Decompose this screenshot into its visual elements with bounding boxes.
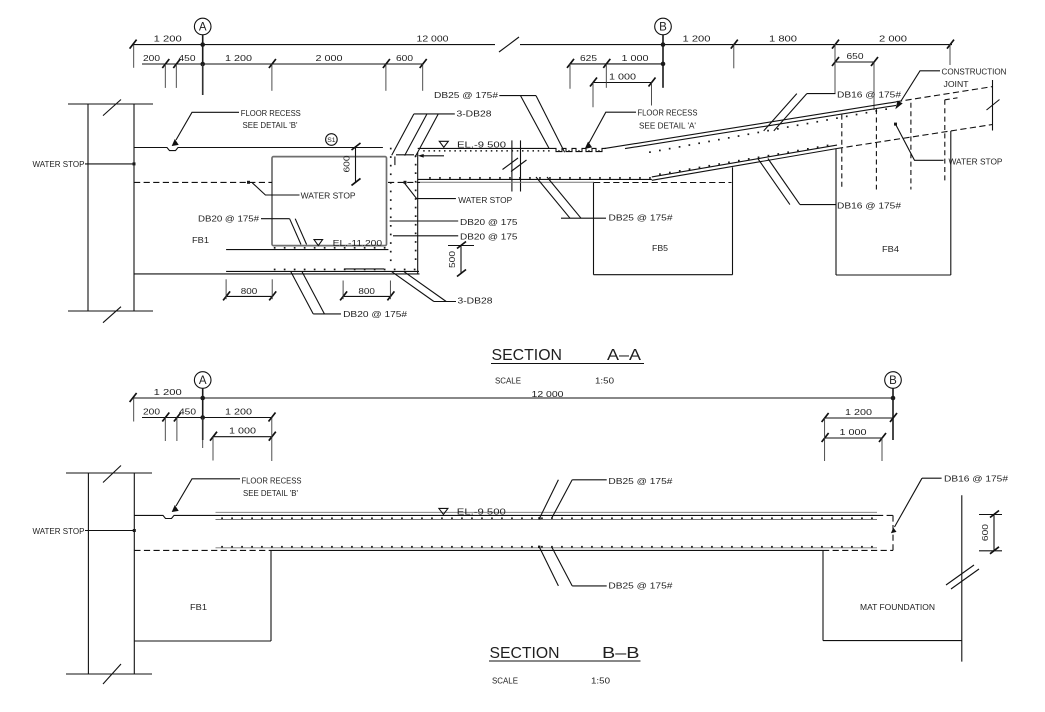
svg-text:JOINT: JOINT xyxy=(944,79,970,89)
dimension text 1 200 (B-B row1) xyxy=(154,387,182,397)
dimension text 1 200 (row1 left) xyxy=(154,34,182,44)
slab end dashed (section B-B) xyxy=(877,515,893,550)
floor recess label (section A-A mid) xyxy=(586,108,698,149)
dimension text 1 000 (B-B row3) xyxy=(229,426,256,436)
water stop label left (section A-A) xyxy=(33,159,136,169)
svg-text:WATER STOP: WATER STOP xyxy=(301,190,356,200)
rebar dot column inner (step) xyxy=(390,148,392,261)
svg-text:FLOOR RECESS: FLOOR RECESS xyxy=(241,108,301,118)
svg-text:MAT FOUNDATION: MAT FOUNDATION xyxy=(860,602,935,612)
svg-text:A: A xyxy=(199,375,207,387)
mat foundation outline (section B-B) xyxy=(823,495,979,661)
slab top line with recess notch (section A-A left) xyxy=(134,148,383,151)
svg-text:1 200: 1 200 xyxy=(154,387,182,397)
svg-text:650: 650 xyxy=(847,51,864,61)
svg-text:WATER STOP: WATER STOP xyxy=(33,526,85,536)
label 3-DB28 (bottom) xyxy=(392,272,493,306)
svg-text:SECTION: SECTION xyxy=(492,347,563,364)
arrow pointing at step bars xyxy=(418,154,444,158)
water stop label in pit (section A-A) xyxy=(252,183,356,201)
svg-text:200: 200 xyxy=(143,53,160,63)
svg-text:SEE DETAIL 'B': SEE DETAIL 'B' xyxy=(243,488,298,498)
ramp bottom rebar dots xyxy=(659,145,828,175)
label DB25 @ 175# (B-B top bars) xyxy=(538,476,672,519)
svg-text:DB20 @ 175: DB20 @ 175 xyxy=(460,231,518,241)
svg-text:3-DB28: 3-DB28 xyxy=(457,109,492,119)
label DB20 @ 175# (pit bottom bars) xyxy=(198,213,307,244)
dimension text 2 000 (row1) xyxy=(879,34,907,44)
pit bottom rebar line (section A-A) xyxy=(226,247,388,250)
svg-text:B: B xyxy=(889,375,897,387)
slab bottom edge dashed over FB1 (section B-B) xyxy=(134,549,272,551)
ramp bottom edge line xyxy=(652,149,837,181)
dimension text 1 000 (B-B right) xyxy=(840,427,867,437)
grid line B stem (section B-B) xyxy=(892,388,894,440)
top rebar dots (section A-A right slab) xyxy=(423,150,600,152)
dimension text 600 (row2) xyxy=(396,53,413,63)
bottom rebar line (section A-A left) xyxy=(226,269,419,272)
label DB25 @ 175# (top slab bars) xyxy=(434,90,565,153)
bottom rebar line (section A-A right) xyxy=(418,177,652,179)
svg-text:S1: S1 xyxy=(327,137,336,144)
svg-text:B–B: B–B xyxy=(602,645,640,662)
dimension text 600 rotated (pit) xyxy=(342,155,352,172)
dimension 500 vertical (step) xyxy=(448,242,474,277)
svg-text:DB20 @ 175#: DB20 @ 175# xyxy=(343,309,407,319)
dimension text 450 (B-B) xyxy=(179,407,196,417)
wall (section B-B) xyxy=(66,466,152,685)
svg-text:DB20 @ 175#: DB20 @ 175# xyxy=(198,213,259,223)
dimension text 1 200 (row2) xyxy=(225,53,252,63)
dimension text 625 (row2 right) xyxy=(580,53,597,63)
dimension text 800 left xyxy=(241,286,258,296)
svg-text:A: A xyxy=(199,22,207,34)
label DB20 @ 175# (bottom bars) xyxy=(291,272,408,320)
svg-text:1 200: 1 200 xyxy=(225,53,252,63)
svg-text:SCALE: SCALE xyxy=(495,376,521,386)
label DB25 @ 175# (FB5 bottom bars) xyxy=(536,177,673,222)
svg-text:1:50: 1:50 xyxy=(595,376,614,386)
svg-text:SECTION: SECTION xyxy=(490,645,560,662)
dimension text 650 xyxy=(847,51,864,61)
svg-text:DB25 @ 175#: DB25 @ 175# xyxy=(434,90,498,100)
svg-text:1 000: 1 000 xyxy=(622,53,649,63)
svg-text:3-DB28: 3-DB28 xyxy=(458,295,493,305)
dimension line row2 left (section A-A) xyxy=(142,59,427,68)
slab bottom edge (section A-A left) xyxy=(134,273,420,275)
svg-text:DB16 @ 175#: DB16 @ 175# xyxy=(837,200,901,210)
svg-text:FB4: FB4 xyxy=(882,244,899,254)
label DB16 @ 175# (ramp top) xyxy=(764,89,902,131)
svg-text:SCALE: SCALE xyxy=(492,676,518,686)
title SECTION A-A xyxy=(491,347,644,364)
svg-text:12 000: 12 000 xyxy=(532,389,564,399)
dimension text 1 200 (B-B right) xyxy=(845,407,872,417)
svg-text:DB25 @ 175#: DB25 @ 175# xyxy=(608,476,672,486)
ramp bottom dashed continuation xyxy=(837,125,993,149)
FB5 footing outline xyxy=(594,167,733,274)
dimension text 600 rotated (B-B) xyxy=(980,524,990,541)
dimension 800 left (section A-A) xyxy=(223,279,276,300)
water stop label left (section B-B) xyxy=(33,526,136,536)
svg-text:A–A: A–A xyxy=(607,347,641,364)
svg-text:2 000: 2 000 xyxy=(879,34,907,44)
FB5 label xyxy=(652,243,668,253)
svg-text:EL.-9 500: EL.-9 500 xyxy=(457,140,506,150)
elevation marker EL.-9 500 (section A-A) xyxy=(439,140,506,150)
dimension line row1 (section B-B) xyxy=(130,393,896,402)
dimension text 1 000 (row3 right) xyxy=(609,72,636,82)
wall (section A-A) xyxy=(68,100,153,323)
svg-text:500: 500 xyxy=(447,251,457,268)
svg-text:FB5: FB5 xyxy=(652,243,668,253)
label 3-DB28 (top) xyxy=(392,109,492,158)
elevation marker EL.-11.200 (pit bottom) xyxy=(314,238,382,248)
grid bubble A (section B-B) xyxy=(194,372,211,389)
dimension extension lines (section A-A) xyxy=(134,44,950,111)
svg-text:12 000: 12 000 xyxy=(417,34,449,44)
svg-text:450: 450 xyxy=(179,53,196,63)
svg-text:FB1: FB1 xyxy=(192,235,209,245)
dashed joint line over FB5 xyxy=(594,182,732,184)
svg-text:200: 200 xyxy=(143,407,160,417)
grid bubble B (section A-A) xyxy=(655,18,672,35)
label DB20 @ 175 (lower) xyxy=(393,231,518,241)
bent bar hook at step top xyxy=(395,155,414,165)
dimension extension lines (section B-B) xyxy=(134,398,882,461)
svg-text:1 000: 1 000 xyxy=(840,427,867,437)
svg-text:SEE DETAIL 'A': SEE DETAIL 'A' xyxy=(639,120,696,130)
dashed joint line at step (section A-A) xyxy=(388,181,420,184)
label DB20 @ 175 (upper) xyxy=(390,217,518,227)
ramp bottom rebar line xyxy=(652,145,837,177)
svg-text:1 000: 1 000 xyxy=(609,72,636,82)
svg-text:FLOOR RECESS: FLOOR RECESS xyxy=(638,108,698,118)
svg-text:2 000: 2 000 xyxy=(316,53,343,63)
dimension text 1 200 (B-B row2) xyxy=(225,407,252,417)
dimension text 800 right xyxy=(358,286,375,296)
svg-text:1 000: 1 000 xyxy=(229,426,256,436)
dimension text 1 800 (row1) xyxy=(769,34,797,44)
svg-text:1:50: 1:50 xyxy=(591,676,610,686)
slab top line with recess notch (section B-B) xyxy=(134,515,877,518)
elevation marker EL.-9 500 (section B-B) xyxy=(439,507,506,517)
svg-text:SEE DETAIL 'B': SEE DETAIL 'B' xyxy=(243,120,298,130)
floor recess label (section B-B) xyxy=(173,476,302,512)
dimension 800 right (section A-A) xyxy=(340,281,394,301)
grid bubble A (section A-A) xyxy=(194,18,211,35)
label DB25 @ 175# (B-B bottom bars) xyxy=(538,546,673,591)
svg-text:800: 800 xyxy=(241,286,258,296)
construction joint label xyxy=(896,66,1006,107)
svg-text:600: 600 xyxy=(396,53,413,63)
top rebar line (section B-B) xyxy=(216,517,878,519)
slab top chamfer line (section B-B) xyxy=(216,511,878,513)
step face line (section A-A) xyxy=(417,153,419,274)
dimension line 1 200 right (section B-B) xyxy=(822,413,897,422)
FB4 label xyxy=(882,244,899,254)
FB4 footing outline xyxy=(836,131,951,275)
svg-text:DB16 @ 175#: DB16 @ 175# xyxy=(944,474,1008,484)
dimension line row2 right (section A-A) xyxy=(567,59,665,68)
svg-text:1 200: 1 200 xyxy=(154,34,182,44)
svg-text:600: 600 xyxy=(342,155,352,172)
dimension text 500 rotated xyxy=(447,251,457,268)
scale note B-B xyxy=(492,676,610,686)
dowel bars dashed (FB4) xyxy=(842,98,958,190)
svg-text:1 800: 1 800 xyxy=(769,34,797,44)
dimension text 450 (row2) xyxy=(179,53,196,63)
svg-text:WATER STOP: WATER STOP xyxy=(33,159,85,169)
FB1 label (section B-B) xyxy=(190,602,207,612)
svg-text:FLOOR RECESS: FLOOR RECESS xyxy=(242,476,302,486)
grid line A stem (section A-A) xyxy=(202,35,204,95)
dimension line row3 (section B-B) xyxy=(210,432,276,441)
dashed joint line left of pit (section A-A) xyxy=(134,181,272,184)
ramp end break line xyxy=(987,80,1000,131)
dimension text 200 (row2) xyxy=(143,53,160,63)
dimension text 12 000 (row1) xyxy=(417,34,449,44)
grid line B stem (section A-A) xyxy=(662,35,664,88)
grid bubble B (section B-B) xyxy=(885,372,902,389)
water stop label right of step (section A-A) xyxy=(405,184,513,206)
svg-text:WATER STOP: WATER STOP xyxy=(949,156,1003,166)
slab break lines (section A-A) xyxy=(503,140,527,191)
svg-text:DB25 @ 175#: DB25 @ 175# xyxy=(609,212,673,222)
floor recess label (section A-A left) xyxy=(173,108,301,146)
slab top line right of step with recess teeth (section A-A) xyxy=(418,148,606,151)
dimension text 12 000 (B-B row1) xyxy=(532,389,564,399)
slab bottom edge gray (section A-A right) xyxy=(420,181,595,183)
ramp top surface line 2 xyxy=(625,105,896,148)
svg-text:B: B xyxy=(659,22,667,34)
svg-text:1 200: 1 200 xyxy=(845,407,872,417)
dimension 600 vertical (pit depth) xyxy=(352,143,361,185)
dimension 600 vertical (section B-B) xyxy=(979,511,1002,554)
dimension text 2 000 (row2) xyxy=(316,53,343,63)
ramp top rebar dots xyxy=(649,108,887,153)
FB1 label (section A-A) xyxy=(192,235,209,245)
svg-text:CONSTRUCTION: CONSTRUCTION xyxy=(942,66,1007,76)
svg-text:DB25 @ 175#: DB25 @ 175# xyxy=(608,580,672,590)
svg-text:DB16 @ 175#: DB16 @ 175# xyxy=(837,89,901,99)
svg-text:1 200: 1 200 xyxy=(225,407,252,417)
FB1 footing outline (section B-B) xyxy=(134,550,271,641)
dimension line row1 (section A-A) xyxy=(130,37,954,52)
dimension text 200 (B-B) xyxy=(143,407,160,417)
title SECTION B-B xyxy=(489,645,641,662)
svg-text:800: 800 xyxy=(358,286,375,296)
slab bottom edge solid (section B-B) xyxy=(273,549,824,551)
dimension text 1 200 (row1 right of B) xyxy=(683,34,711,44)
pit recess outline S1 (section A-A) xyxy=(272,157,387,246)
ramp top surface line 1 xyxy=(604,102,896,149)
bottom rebar line (section B-B) xyxy=(216,546,878,548)
dimension text 1 000 (row2 right) xyxy=(622,53,649,63)
svg-text:WATER STOP: WATER STOP xyxy=(458,195,512,205)
svg-text:EL.-9 500: EL.-9 500 xyxy=(457,507,506,517)
label DB16 @ 175# (section B-B) xyxy=(891,474,1008,534)
dimension line 1 000 right (section B-B) xyxy=(822,433,886,442)
slab bottom edge dashed right (section B-B) xyxy=(823,549,893,551)
svg-text:625: 625 xyxy=(580,53,597,63)
svg-text:600: 600 xyxy=(980,524,990,541)
water stop label at construction joint xyxy=(894,123,1003,167)
svg-text:EL.-11.200: EL.-11.200 xyxy=(333,238,383,248)
svg-text:1 200: 1 200 xyxy=(683,34,711,44)
rebar dot column outer (step) xyxy=(415,155,417,260)
label DB16 @ 175# (ramp bottom) xyxy=(758,159,901,211)
svg-text:DB20 @ 175: DB20 @ 175 xyxy=(460,217,518,227)
dimension line row2 (section B-B) xyxy=(142,413,276,422)
scale note A-A xyxy=(495,376,614,386)
mat foundation label xyxy=(860,602,935,612)
grid bubble S1 (section A-A) xyxy=(326,134,338,146)
ramp top dashed continuation xyxy=(896,87,993,102)
dimension line row3 right (section A-A) xyxy=(590,78,656,87)
svg-text:450: 450 xyxy=(179,407,196,417)
svg-text:FB1: FB1 xyxy=(190,602,207,612)
grid line A stem (section B-B) xyxy=(202,388,204,440)
dimension line 650 (section A-A) xyxy=(832,57,878,66)
